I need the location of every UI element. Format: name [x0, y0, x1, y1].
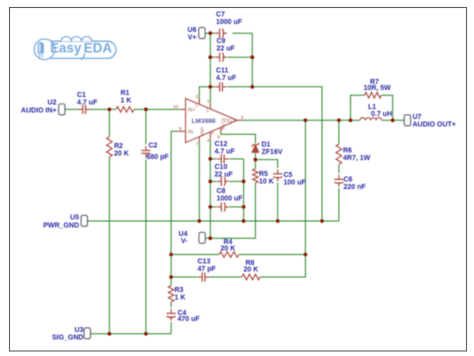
svg-text:C7: C7 — [216, 12, 225, 19]
svg-text:LM3886: LM3886 — [192, 118, 217, 125]
svg-text:1000 uF: 1000 uF — [216, 19, 243, 26]
svg-text:MUTE: MUTE — [221, 117, 226, 129]
svg-text:V+: V+ — [194, 102, 199, 108]
svg-text:20 K: 20 K — [114, 151, 129, 158]
svg-text:R2: R2 — [114, 143, 123, 150]
svg-text:EDA: EDA — [84, 41, 113, 56]
svg-text:ZF16V: ZF16V — [262, 149, 283, 156]
svg-text:V-: V- — [181, 238, 188, 245]
svg-text:U3: U3 — [75, 327, 84, 334]
svg-text:100 uF: 100 uF — [284, 180, 307, 187]
svg-text:680 pF: 680 pF — [147, 154, 170, 161]
svg-text:C11: C11 — [216, 68, 229, 75]
svg-text:C1: C1 — [77, 92, 86, 99]
svg-text:Easy: Easy — [50, 41, 82, 56]
svg-text:220 nF: 220 nF — [344, 184, 367, 191]
svg-text:OUT: OUT — [224, 118, 235, 124]
svg-text:10R, 5W: 10R, 5W — [364, 85, 392, 92]
svg-text:1 K: 1 K — [175, 295, 186, 302]
svg-text:U5: U5 — [70, 214, 79, 221]
svg-text:U7: U7 — [413, 114, 422, 121]
svg-text:470 uF: 470 uF — [178, 316, 201, 323]
svg-text:1 K: 1 K — [121, 98, 132, 105]
svg-text:R1: R1 — [121, 90, 130, 97]
svg-text:AUDIO OUT+: AUDIO OUT+ — [413, 122, 456, 129]
svg-text:R6: R6 — [343, 147, 352, 154]
svg-text:22 uF: 22 uF — [215, 171, 234, 178]
svg-text:C12: C12 — [215, 141, 228, 148]
svg-text:10 K: 10 K — [259, 179, 274, 186]
svg-text:PWR_GND: PWR_GND — [43, 222, 79, 229]
svg-text:C10: C10 — [215, 164, 228, 171]
svg-text:GND: GND — [199, 127, 204, 137]
svg-text:20 K: 20 K — [221, 245, 236, 252]
svg-text:V+: V+ — [205, 107, 210, 113]
svg-text:3: 3 — [241, 115, 244, 121]
svg-text:4.7 uF: 4.7 uF — [77, 100, 98, 107]
svg-text:D1: D1 — [262, 142, 271, 149]
svg-text:SIG_GND: SIG_GND — [52, 334, 84, 341]
svg-text:C13: C13 — [198, 259, 211, 266]
svg-text:C2: C2 — [149, 143, 158, 150]
svg-text:IN-: IN- — [188, 130, 195, 136]
svg-text:R5: R5 — [259, 171, 268, 178]
svg-text:C6: C6 — [344, 176, 353, 183]
svg-text:C8: C8 — [217, 188, 226, 195]
svg-text:22 uF: 22 uF — [217, 46, 236, 53]
svg-text:V+: V+ — [188, 35, 197, 42]
svg-text:0.7 uH: 0.7 uH — [371, 111, 392, 118]
svg-text:U2: U2 — [48, 99, 57, 106]
svg-text:C9: C9 — [217, 38, 226, 45]
svg-text:4.7 uF: 4.7 uF — [215, 149, 236, 156]
svg-text:U6: U6 — [188, 27, 197, 34]
svg-text:C5: C5 — [284, 172, 293, 179]
svg-text:AUDIO IN+: AUDIO IN+ — [21, 107, 57, 114]
svg-text:4R7, 1W: 4R7, 1W — [343, 155, 371, 162]
svg-text:20 K: 20 K — [244, 267, 259, 274]
svg-text:4.7 uF: 4.7 uF — [216, 75, 237, 82]
svg-text:9: 9 — [179, 126, 182, 132]
svg-text:10: 10 — [173, 104, 179, 110]
svg-text:IN+: IN+ — [188, 108, 196, 114]
svg-text:1000 uF: 1000 uF — [217, 195, 244, 202]
svg-text:47 pF: 47 pF — [198, 266, 217, 273]
svg-text:V-: V- — [210, 130, 215, 135]
svg-text:R3: R3 — [175, 287, 184, 294]
